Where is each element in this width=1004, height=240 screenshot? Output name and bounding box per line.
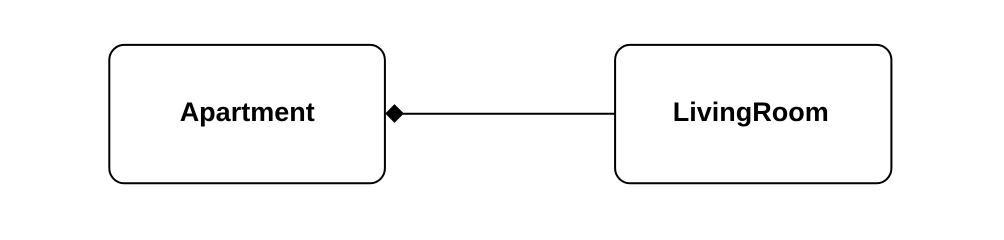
composition diamond at Apartment end xyxy=(385,104,404,123)
class box Apartment xyxy=(109,45,385,183)
class box LivingRoom xyxy=(615,45,891,183)
svg-text:LivingRoom: LivingRoom xyxy=(673,97,829,127)
wire: composition link Apartment to LivingRoom xyxy=(394,113,615,115)
svg-text:Apartment: Apartment xyxy=(180,97,315,127)
